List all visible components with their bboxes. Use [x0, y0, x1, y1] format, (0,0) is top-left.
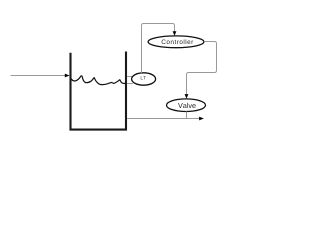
wire valve stem	[186, 112, 188, 119]
liquid surface wave	[71, 76, 125, 85]
wire controller to valve	[185, 42, 217, 99]
label LT text	[141, 76, 146, 79]
wire LT to controller	[142, 24, 177, 74]
node wall to LT connector lower	[127, 83, 133, 85]
label Valve text	[178, 103, 196, 108]
controller U1	[148, 36, 204, 48]
valve V1	[167, 99, 206, 112]
level transmitter LT	[132, 73, 156, 85]
tank T1	[71, 52, 127, 130]
wire outflow	[127, 117, 204, 121]
node wall to LT connector upper	[127, 76, 133, 78]
label Controller text	[162, 39, 194, 44]
wire inflow	[11, 74, 70, 78]
